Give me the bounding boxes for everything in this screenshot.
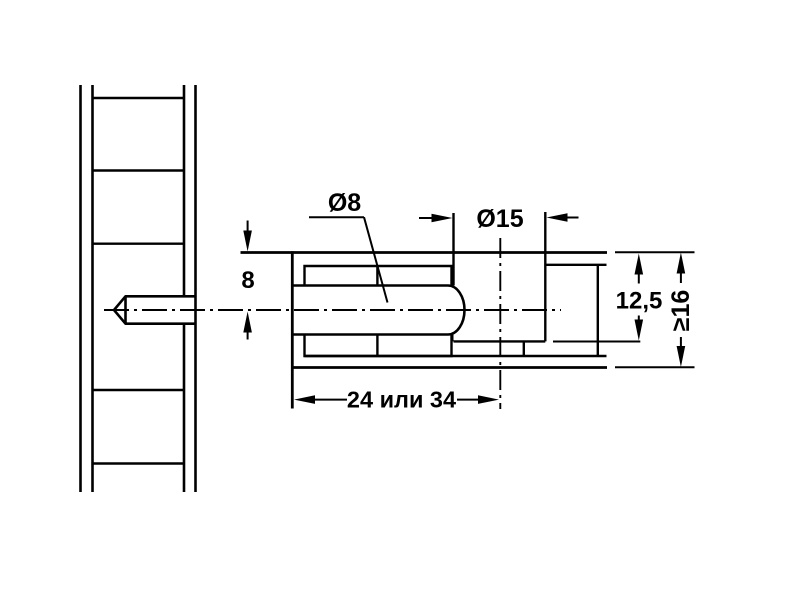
dowel pin tip base vertical xyxy=(124,296,127,323)
cam pocket step vertical xyxy=(523,341,525,356)
label Ø8 shelf xyxy=(309,216,364,218)
panel rung 4 xyxy=(93,389,185,391)
left panel outer edge line left xyxy=(79,85,82,492)
left panel inner edge line left xyxy=(91,85,94,492)
cam axis vertical center line xyxy=(499,238,501,409)
dim >=16 lower arrow xyxy=(680,337,682,347)
bolt shaft top line xyxy=(294,284,449,287)
lower sleeve rectangle xyxy=(305,335,452,357)
panel rung 3 xyxy=(93,242,185,244)
dim >=16 extension bottom xyxy=(615,366,695,368)
svg-text:Ø15: Ø15 xyxy=(476,205,523,233)
lower sleeve divider xyxy=(376,335,378,357)
dim >=16 upper arrow xyxy=(677,253,686,274)
dim 8 down arrow xyxy=(247,221,249,234)
dim 12.5 lower arrow xyxy=(638,316,640,322)
svg-text:8: 8 xyxy=(241,267,254,294)
svg-text:24 или 34: 24 или 34 xyxy=(347,387,456,413)
dowel pin tip triangle xyxy=(114,296,196,323)
bolt shaft bottom line xyxy=(294,333,449,336)
label Ø8 leader line xyxy=(364,217,388,302)
panel rung 2 xyxy=(93,169,185,171)
dim 24/34 line left xyxy=(314,399,347,401)
board top line with left extension tick xyxy=(241,251,608,254)
board bottom line xyxy=(291,366,607,369)
inner vertical right xyxy=(597,265,599,356)
dim >=16 extension top xyxy=(615,251,695,253)
svg-text:12,5: 12,5 xyxy=(616,288,663,315)
dim Ø15 left arrow xyxy=(419,217,434,219)
cam hole bottom xyxy=(454,340,546,342)
dim 12.5 upper arrow xyxy=(635,254,644,275)
svg-text:≥16: ≥16 xyxy=(667,290,695,332)
dim 12.5 extension line xyxy=(553,341,640,343)
horizontal center line xyxy=(104,309,561,311)
cam hole left edge / dim extension xyxy=(452,213,454,286)
upper sleeve rectangle xyxy=(305,266,452,286)
bolt nose bottom step vertical xyxy=(451,333,453,341)
upper sleeve divider xyxy=(376,266,378,286)
left panel outer edge line right xyxy=(194,85,197,492)
panel rung 5 xyxy=(93,462,185,464)
board left edge with dimension extension xyxy=(291,251,294,408)
left panel inner edge line right (broken at pin) xyxy=(183,85,186,296)
inner board line upper right xyxy=(547,264,607,266)
bolt nose half ellipse xyxy=(448,286,465,335)
cam hole right edge / dim extension xyxy=(544,212,546,341)
dim 24/34 line right xyxy=(457,399,479,401)
inner board line lower xyxy=(305,355,607,357)
dim 8 up arrow xyxy=(243,312,252,333)
panel rung 1 xyxy=(93,97,185,99)
dim Ø15 right arrow xyxy=(564,217,579,219)
svg-text:Ø8: Ø8 xyxy=(328,189,361,217)
